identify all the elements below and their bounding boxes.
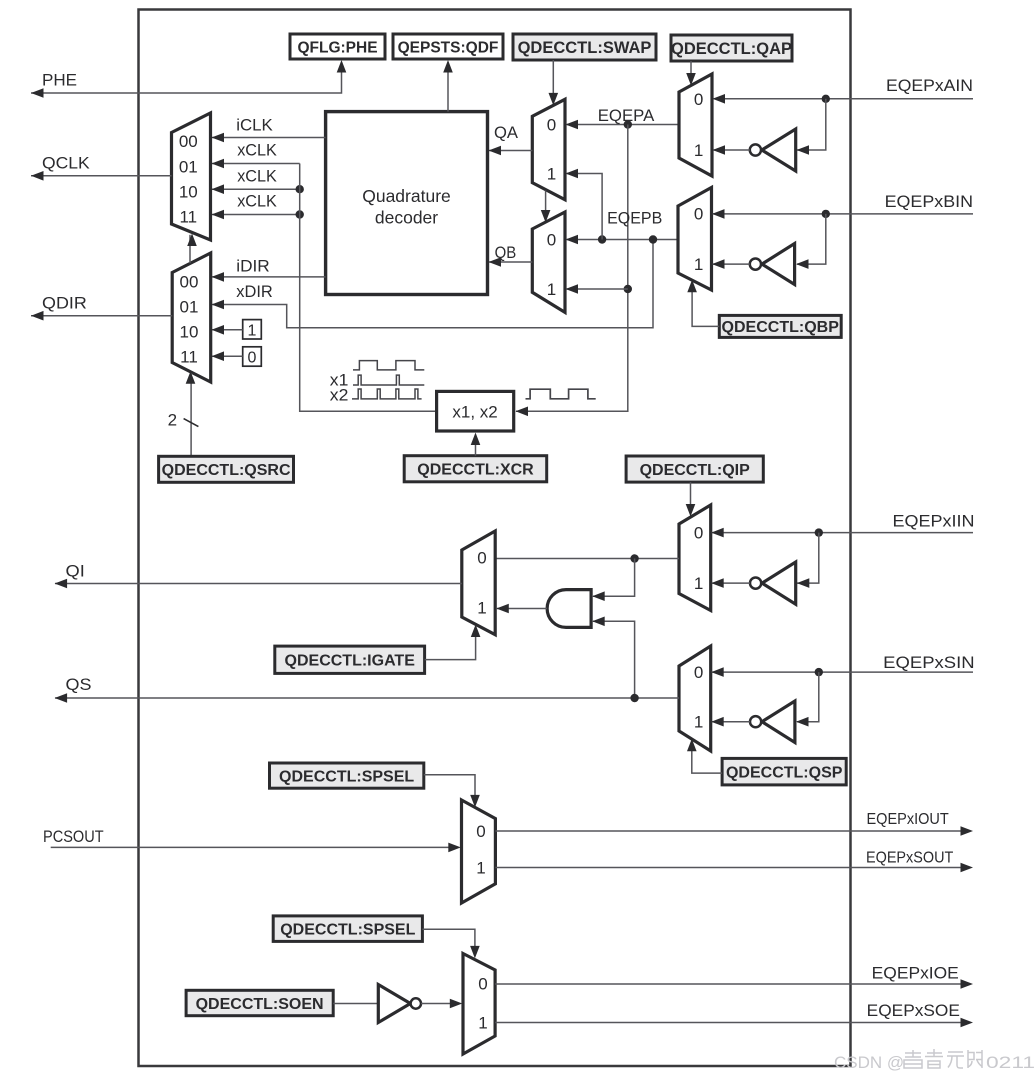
- svg-text:x1, x2: x1, x2: [452, 402, 497, 421]
- wire EQEPxAIN to inverter A: [797, 99, 826, 155]
- svg-text:1: 1: [694, 713, 703, 732]
- wire EQEPB: [566, 235, 679, 245]
- wire EQEPA down to x1x2: [516, 125, 633, 417]
- svg-text:2: 2: [168, 411, 177, 430]
- wire EQEPB to swap A input1: [566, 169, 603, 240]
- wire EQEPxSOE: [495, 1018, 973, 1028]
- constant 1 box: [243, 320, 262, 340]
- svg-text:1: 1: [694, 255, 703, 274]
- inverter B U4: [750, 244, 795, 285]
- svg-text:xCLK: xCLK: [237, 166, 277, 185]
- svg-text:QS: QS: [66, 675, 92, 694]
- svg-text:QDECCTL:SPSEL: QDECCTL:SPSEL: [279, 768, 414, 785]
- wire EQEPA to swap B input1: [566, 284, 628, 294]
- svg-text:PHE: PHE: [42, 71, 77, 90]
- wire EQEPxSIN: [711, 667, 973, 677]
- svg-text:QDIR: QDIR: [42, 294, 87, 313]
- svg-text:0: 0: [476, 822, 485, 841]
- svg-text:11: 11: [179, 208, 197, 227]
- wire xCLK tap 01: [212, 159, 300, 169]
- svg-text:0211: 0211: [986, 1053, 1035, 1072]
- svg-text:x2: x2: [330, 386, 349, 405]
- svg-text:CSDN @: CSDN @: [834, 1053, 904, 1072]
- inverter I U5: [750, 562, 796, 604]
- mux QAP polarity M5: [679, 74, 712, 176]
- wire QSRC select upper: [187, 234, 197, 264]
- wire inverter S out: [711, 717, 750, 727]
- svg-text:0: 0: [694, 205, 703, 224]
- wire QIP select: [686, 482, 696, 516]
- wire SPSEL1 select: [424, 775, 480, 808]
- wire QCLK output: [31, 171, 172, 181]
- svg-text:QA: QA: [494, 123, 519, 142]
- quadrature decoder block U1: [326, 112, 488, 295]
- svg-text:1: 1: [478, 1013, 487, 1032]
- wire QI output: [55, 579, 462, 589]
- svg-text:QDECCTL:QSP: QDECCTL:QSP: [726, 764, 843, 781]
- svg-text:xDIR: xDIR: [236, 282, 273, 301]
- wire QSP select: [687, 739, 722, 773]
- wire iDIR: [212, 272, 326, 282]
- svg-text:1: 1: [477, 599, 486, 618]
- wire QA: [489, 146, 533, 156]
- wire PCSOUT input: [51, 843, 461, 853]
- wire xCLK tap 10: [212, 184, 304, 194]
- wire xDIR from EQEPB: [212, 240, 654, 328]
- svg-text:QDECCTL:QBP: QDECCTL:QBP: [722, 319, 840, 336]
- svg-text:1: 1: [694, 141, 703, 160]
- wire EQEPxAIN: [713, 94, 974, 104]
- wire inverter I out: [711, 578, 750, 588]
- bus width tick 2: [184, 419, 199, 427]
- svg-text:10: 10: [179, 183, 198, 202]
- svg-text:QDECCTL:SOEN: QDECCTL:SOEN: [196, 996, 324, 1013]
- svg-text:QDECCTL:IGATE: QDECCTL:IGATE: [285, 653, 416, 670]
- svg-text:iCLK: iCLK: [236, 115, 273, 134]
- mux swap A M3: [532, 99, 565, 199]
- svg-text:EQEPxIOUT: EQEPxIOUT: [867, 811, 950, 828]
- wire const 1: [212, 325, 243, 335]
- svg-text:xCLK: xCLK: [237, 141, 277, 160]
- wire EQEPxBIN: [712, 209, 973, 219]
- register box QDECCTL:SOEN: [186, 990, 333, 1015]
- svg-text:01: 01: [179, 157, 198, 176]
- register box QDECCTL:QBP: [719, 315, 841, 337]
- mux QCLK source M1: [172, 113, 211, 240]
- wire QDIR output: [31, 311, 172, 321]
- wire QSRC select: [186, 371, 196, 456]
- svg-text:EQEPxIIN: EQEPxIIN: [893, 511, 975, 530]
- svg-text:PCSOUT: PCSOUT: [43, 827, 104, 846]
- waveform quadrature clock: [353, 361, 424, 370]
- wire QB: [489, 257, 533, 267]
- waveform x1x2 output: [526, 389, 596, 399]
- wire EQEPxSOUT: [495, 863, 973, 873]
- wire QS to AND lower: [592, 617, 634, 699]
- svg-text:1: 1: [547, 280, 556, 299]
- wire SWAP select A to B: [541, 191, 551, 223]
- register box QDECCTL:QIP: [626, 456, 763, 482]
- module border: [139, 10, 851, 1067]
- mux IGATE M8: [462, 531, 495, 635]
- svg-text:QDECCTL:QAP: QDECCTL:QAP: [671, 40, 792, 58]
- demux SPSEL output M10: [462, 800, 496, 903]
- register box QDECCTL:SPSEL 1: [270, 763, 424, 788]
- svg-text:EQEPA: EQEPA: [598, 106, 655, 125]
- svg-text:EQEPxSIN: EQEPxSIN: [883, 653, 974, 672]
- svg-text:EQEPB: EQEPB: [607, 209, 662, 228]
- wire XCR select: [471, 433, 481, 456]
- wire EQEPxIIN: [711, 528, 973, 538]
- wire SWAP select: [549, 60, 559, 105]
- demux SOEN output M11: [463, 954, 495, 1055]
- register box QEPSTS:QDF: [393, 34, 503, 59]
- wire QI to AND upper: [592, 559, 634, 602]
- wire QBP select: [687, 280, 719, 327]
- wire IGATE select: [425, 625, 481, 660]
- svg-text:0: 0: [547, 231, 556, 250]
- register box QDECCTL:QSP: [722, 758, 846, 785]
- svg-text:decoder: decoder: [375, 208, 438, 228]
- watermark: [834, 1049, 1035, 1072]
- wire SOEN to buffer: [333, 1003, 378, 1005]
- wire EQEPxIIN to inverter I: [797, 533, 819, 588]
- wire xCLK tap 11: [212, 210, 304, 220]
- svg-text:EQEPxSOE: EQEPxSOE: [867, 1001, 960, 1020]
- svg-text:EQEPxAIN: EQEPxAIN: [886, 76, 973, 95]
- mux QBP polarity M6: [678, 188, 712, 291]
- svg-text:01: 01: [180, 298, 199, 317]
- svg-text:0: 0: [477, 549, 486, 568]
- svg-text:0: 0: [478, 975, 487, 994]
- svg-text:QDECCTL:SPSEL: QDECCTL:SPSEL: [280, 921, 415, 938]
- register box QDECCTL:IGATE: [275, 646, 425, 673]
- svg-text:iDIR: iDIR: [236, 256, 270, 275]
- svg-text:0: 0: [694, 524, 703, 543]
- svg-text:0: 0: [694, 90, 703, 109]
- wire buffer out to demux: [421, 999, 462, 1009]
- svg-text:1: 1: [248, 322, 257, 339]
- mux swap B M4: [532, 212, 565, 312]
- register box QDECCTL:SPSEL 2: [273, 916, 422, 942]
- register box QDECCTL:QSRC: [159, 456, 294, 482]
- svg-text:EQEPxBIN: EQEPxBIN: [885, 192, 973, 211]
- svg-text:QDECCTL:XCR: QDECCTL:XCR: [417, 462, 534, 479]
- svg-text:QDECCTL:SWAP: QDECCTL:SWAP: [518, 39, 652, 57]
- register box QFLG:PHE: [290, 34, 385, 59]
- svg-text:10: 10: [180, 323, 199, 342]
- mux QIP polarity M7: [679, 505, 711, 611]
- mux QSP polarity M9: [679, 646, 711, 751]
- wire AND out to IGATE mux input1: [496, 604, 547, 614]
- wire inverter A out: [713, 145, 750, 155]
- wire xCLK vertical from x1x2: [300, 164, 437, 412]
- svg-text:1: 1: [694, 574, 703, 593]
- inverting buffer U8: [378, 985, 421, 1023]
- wire QDF to QEPSTS:QDF: [443, 60, 453, 112]
- wire QAP select: [686, 61, 696, 86]
- waveform x2: [352, 389, 422, 399]
- wire PHE output: [31, 60, 346, 98]
- svg-text:QI: QI: [66, 562, 85, 581]
- svg-text:QCLK: QCLK: [42, 154, 90, 173]
- wire inverter B out: [712, 259, 750, 269]
- svg-text:EQEPxSOUT: EQEPxSOUT: [866, 850, 954, 867]
- inverter S U7: [750, 701, 795, 743]
- wire const 0: [212, 351, 243, 361]
- register box QDECCTL:SWAP: [513, 34, 656, 60]
- inverter A U3: [750, 129, 796, 171]
- register box QDECCTL:XCR: [404, 456, 547, 482]
- AND gate U6: [547, 590, 591, 628]
- svg-text:EQEPxIOE: EQEPxIOE: [872, 963, 959, 982]
- svg-text:QEPSTS:QDF: QEPSTS:QDF: [398, 39, 499, 56]
- wire SPSEL2 select: [422, 929, 479, 958]
- svg-text:11: 11: [180, 348, 198, 367]
- x1,x2 block U2: [437, 391, 514, 431]
- svg-text:0: 0: [547, 116, 556, 135]
- constant 0 box: [243, 347, 262, 367]
- wire EQEPxIOE: [495, 979, 973, 989]
- svg-text:QB: QB: [495, 243, 517, 262]
- svg-text:QFLG:PHE: QFLG:PHE: [297, 39, 377, 56]
- wire QS output: [55, 693, 679, 703]
- svg-text:Quadrature: Quadrature: [362, 186, 451, 206]
- svg-text:00: 00: [179, 132, 198, 151]
- svg-text:QDECCTL:QIP: QDECCTL:QIP: [640, 462, 751, 479]
- svg-text:xCLK: xCLK: [237, 192, 277, 211]
- register box QDECCTL:QAP: [671, 35, 792, 61]
- wire EQEPxBIN to inverter B: [796, 214, 826, 269]
- wire EQEPA: [566, 120, 680, 130]
- svg-text:0: 0: [694, 663, 703, 682]
- svg-text:1: 1: [547, 165, 556, 184]
- wire EQEPxIOUT: [495, 826, 973, 836]
- mux QDIR source M2: [172, 253, 211, 382]
- svg-text:QDECCTL:QSRC: QDECCTL:QSRC: [162, 462, 291, 479]
- wire iCLK: [212, 133, 326, 143]
- svg-text:00: 00: [180, 273, 199, 292]
- svg-text:1: 1: [476, 859, 485, 878]
- wire QIP out to IGATE mux: [495, 554, 679, 562]
- wire EQEPxSIN to inverter S: [796, 672, 819, 726]
- svg-text:0: 0: [248, 350, 257, 367]
- waveform x1: [353, 375, 424, 385]
